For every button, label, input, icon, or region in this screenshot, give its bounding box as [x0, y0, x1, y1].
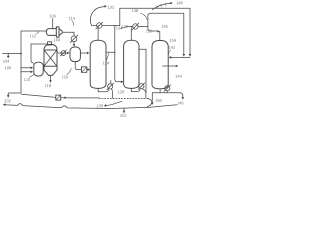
wire leader 130 arrow — [105, 101, 122, 106]
wire dashed recycle header — [99, 97, 147, 99]
wire feed line into main pipe — [3, 53, 22, 55]
reactor R dome — [44, 44, 57, 50]
label 108 — [5, 66, 11, 69]
wire feed stub arrow down — [7, 54, 9, 57]
label 132 — [108, 6, 114, 9]
wire leader 120 — [67, 68, 71, 74]
wire column3 bottoms stub — [159, 89, 161, 93]
pump P2 box — [81, 67, 86, 72]
wire reactor top line to x31 — [31, 43, 47, 45]
wire reactor bottoms arrow — [50, 75, 52, 81]
wire feed arrow 1 into cylinder — [21, 67, 31, 69]
wire leader 134 — [120, 27, 125, 28]
wire reactor bottoms header to pump box — [22, 94, 56, 97]
label 106 — [50, 15, 56, 18]
wire valve V4 up — [110, 80, 112, 83]
wire column1 riser — [97, 26, 99, 41]
label 112 — [30, 34, 36, 37]
column T3 — [152, 40, 168, 88]
wire header arrow continue — [61, 97, 65, 99]
wire leader 110 — [30, 75, 34, 78]
wire product curve 132 — [90, 6, 104, 25]
wire dashed hook down arrow — [147, 98, 152, 103]
cylinder C small vessel — [34, 62, 43, 76]
label 120 — [62, 76, 68, 79]
column T2 — [124, 40, 139, 88]
wire pump to column1 arrow — [87, 69, 88, 71]
drum D separator vessel — [70, 47, 80, 62]
label 114 — [69, 17, 75, 20]
wire leader 138 — [141, 13, 148, 19]
valve V4 — [108, 84, 113, 89]
wire column3 side arrow 144 — [163, 65, 176, 67]
wire reflux line into column3 — [170, 56, 190, 58]
label 118 — [45, 84, 51, 87]
wire main vertical pipe — [20, 31, 22, 93]
label 156 — [170, 39, 176, 42]
label 110 — [24, 78, 30, 81]
label 136 — [146, 30, 152, 33]
wire transfer pipe down between columns — [115, 26, 122, 82]
label 100 — [54, 38, 60, 41]
label 150 — [156, 99, 162, 102]
column T1 — [90, 40, 106, 88]
wire arrow down 146 — [182, 97, 185, 100]
label 104 — [3, 60, 9, 63]
valve V3 — [97, 23, 102, 28]
wire pipe to ejector — [21, 30, 47, 32]
wire column2 side draw — [139, 48, 146, 50]
valve V6 — [139, 84, 144, 89]
wire ejector discharge — [62, 32, 74, 36]
wire column3 bottoms header right — [152, 93, 183, 98]
wire long bottom recycle line — [5, 104, 177, 109]
reactor R lower shell — [44, 66, 57, 70]
label 140 — [162, 25, 168, 28]
pump P1 box — [56, 95, 61, 100]
wire drum to column1 arrow — [81, 52, 88, 54]
wire ejector motive line — [52, 19, 54, 28]
tick marks on leader 148 — [157, 4, 166, 8]
wire overhead S-curve up — [148, 13, 151, 26]
valve V1 — [71, 36, 77, 42]
valve V2 — [61, 51, 66, 56]
wire column2 bottoms to valve — [131, 88, 140, 91]
wire column1 overhead line — [91, 25, 119, 27]
wire down arrow 152 — [123, 108, 125, 111]
wire valve V1 outlet arrow into drum — [73, 42, 75, 45]
label 102 — [5, 99, 11, 102]
reactor R body with X bed — [44, 50, 57, 66]
wire overhead riser to top header — [120, 8, 190, 55]
ejector cone — [59, 29, 62, 36]
label 122 — [122, 25, 128, 28]
wire vertical into cylinder — [31, 44, 34, 63]
label 134 — [116, 27, 122, 30]
wire leader 124 — [107, 53, 109, 59]
wire leader 114 — [72, 21, 74, 26]
label 142 — [169, 46, 175, 49]
ejector E body — [46, 29, 56, 36]
wire top vent curve 148 — [153, 3, 171, 10]
wire column3 bottoms left branch down to recycle — [147, 93, 152, 107]
wire column3 riser — [159, 32, 161, 41]
valve V5 — [133, 24, 138, 29]
wire arrow into drum — [67, 52, 70, 55]
label 130 — [97, 104, 103, 107]
label 146 — [177, 102, 183, 105]
wire connector to column3 riser — [148, 27, 158, 32]
wire leader 142 — [169, 50, 171, 54]
reactor R cone — [44, 70, 57, 75]
wire bottom-left outlet — [8, 93, 21, 96]
node feed junction — [20, 53, 22, 55]
label 128 — [118, 90, 124, 93]
label 148 — [177, 1, 183, 4]
wire column2 riser — [130, 27, 132, 41]
reactor R neck — [48, 42, 52, 45]
label 124 — [103, 62, 109, 65]
wire valve V6 discharge — [142, 89, 146, 98]
label 152 — [120, 114, 126, 117]
wire top header 2 — [151, 13, 184, 55]
ejector flange — [56, 27, 59, 37]
label 144 — [176, 75, 182, 78]
wire reactor to drum line — [58, 52, 68, 54]
wire column2 overhead line — [126, 26, 148, 28]
label 138 — [132, 9, 138, 12]
wire feed arrow 2 into cylinder — [21, 71, 31, 73]
valve V7 — [165, 86, 170, 91]
wire leader 112 — [36, 32, 38, 34]
wire column1 side draw — [106, 51, 115, 53]
wire side draw downcomer — [145, 49, 147, 93]
wire drum bottoms to pump — [75, 62, 81, 70]
wire valve V4 down to header — [112, 89, 113, 98]
wire column1 bottoms to valve — [98, 88, 109, 91]
